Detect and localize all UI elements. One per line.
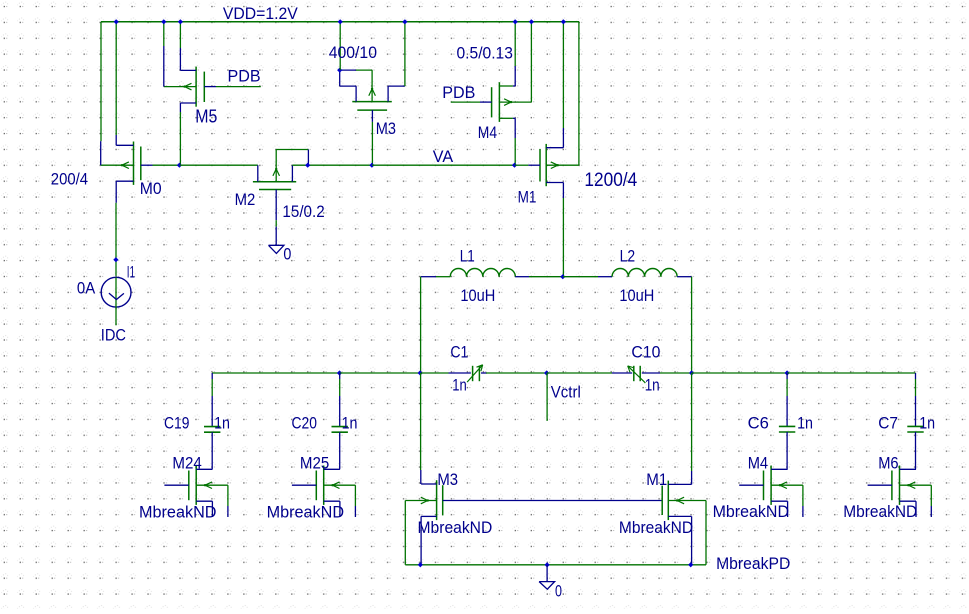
svg-text:1n: 1n: [214, 414, 230, 433]
svg-text:MbreakPD: MbreakPD: [716, 554, 790, 573]
svg-text:15/0.2: 15/0.2: [282, 202, 324, 221]
svg-text:VA: VA: [433, 147, 454, 166]
svg-text:M2: M2: [235, 190, 256, 209]
svg-text:MbreakND: MbreakND: [843, 502, 917, 521]
svg-text:PDB: PDB: [442, 83, 475, 102]
svg-text:MbreakND: MbreakND: [267, 502, 345, 521]
svg-text:MbreakND: MbreakND: [139, 502, 217, 521]
svg-text:VDD=1.2V: VDD=1.2V: [223, 4, 299, 23]
svg-text:M0: M0: [140, 179, 162, 198]
svg-text:0.5/0.13: 0.5/0.13: [457, 44, 513, 63]
svg-text:1n: 1n: [645, 376, 660, 395]
svg-text:M1: M1: [518, 187, 537, 206]
svg-text:C1: C1: [450, 343, 468, 362]
svg-text:IDC: IDC: [101, 326, 126, 345]
svg-text:C7: C7: [878, 413, 898, 432]
svg-text:C6: C6: [748, 413, 769, 432]
svg-text:M6: M6: [878, 454, 898, 473]
svg-text:MbreakND: MbreakND: [713, 502, 789, 521]
svg-text:1n: 1n: [452, 376, 467, 395]
svg-text:M1: M1: [646, 470, 667, 489]
svg-text:PDB: PDB: [228, 67, 261, 86]
svg-text:0: 0: [283, 245, 291, 264]
svg-text:C19: C19: [164, 414, 189, 433]
svg-text:M3: M3: [376, 119, 396, 138]
svg-text:I1: I1: [127, 262, 135, 281]
svg-text:0: 0: [555, 581, 562, 600]
svg-text:M4: M4: [748, 454, 768, 473]
svg-text:M25: M25: [300, 454, 329, 473]
svg-text:C10: C10: [631, 342, 660, 361]
svg-text:0A: 0A: [77, 279, 96, 298]
svg-text:L2: L2: [620, 247, 636, 266]
svg-text:1n: 1n: [919, 413, 935, 432]
svg-text:MbreakND: MbreakND: [619, 518, 693, 537]
svg-text:MbreakND: MbreakND: [418, 518, 493, 537]
svg-text:1200/4: 1200/4: [584, 170, 637, 191]
svg-text:1n: 1n: [342, 414, 358, 433]
svg-text:C20: C20: [292, 414, 317, 433]
svg-text:M3: M3: [437, 470, 458, 489]
svg-text:M5: M5: [195, 107, 217, 127]
svg-text:1n: 1n: [797, 413, 813, 432]
svg-text:400/10: 400/10: [329, 43, 377, 62]
svg-text:10uH: 10uH: [460, 286, 495, 305]
svg-text:L1: L1: [460, 247, 475, 266]
svg-text:M24: M24: [172, 454, 201, 473]
svg-text:10uH: 10uH: [619, 286, 654, 305]
svg-text:M4: M4: [478, 123, 497, 142]
svg-text:Vctrl: Vctrl: [551, 382, 581, 401]
svg-text:200/4: 200/4: [51, 170, 88, 189]
